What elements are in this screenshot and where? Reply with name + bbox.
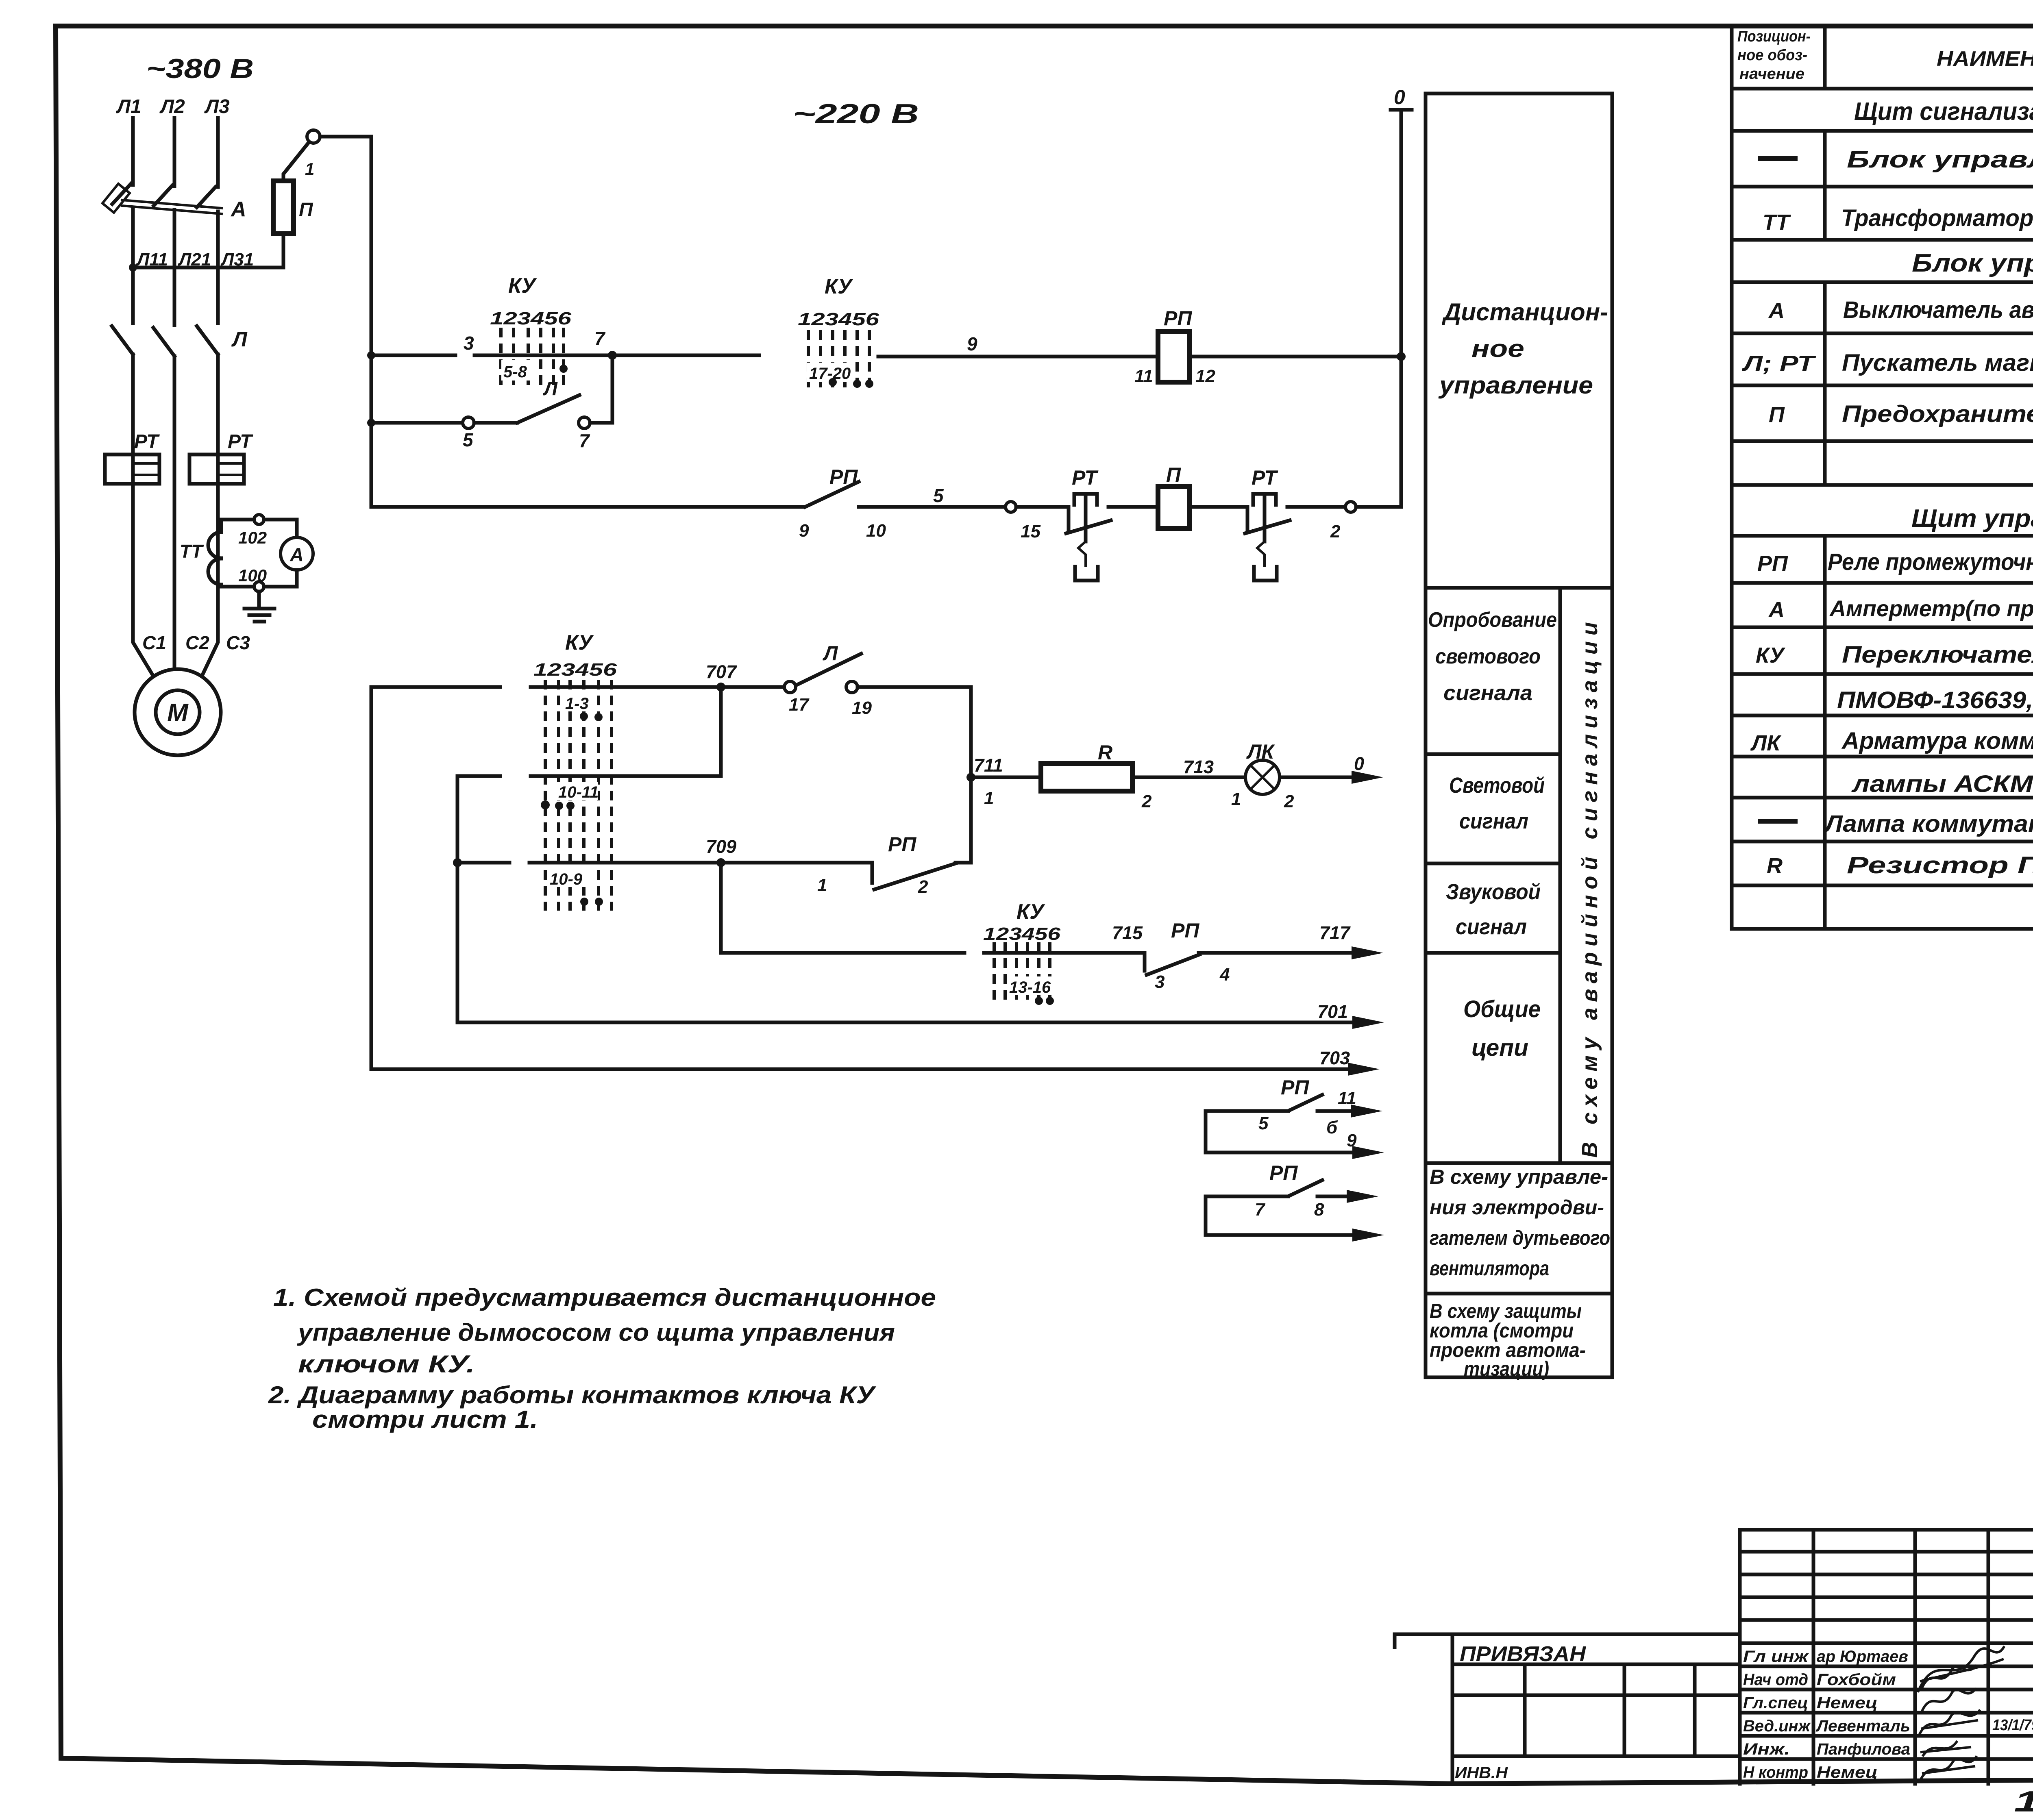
wire fuse terminal to 220V bus [320,135,371,139]
node label 707 [706,661,737,682]
wire vertical node 711 riser [966,687,975,863]
cell text oprobovanie svetovogo signala [1428,608,1557,705]
thermal relay RT heater phase L3 [189,454,244,484]
node label 711 [974,755,1003,808]
svg-text:1-3: 1-3 [565,695,589,713]
svg-text:В схему аварийной сигнализации: В схему аварийной сигнализации [1578,616,1602,1158]
svg-text:703: 703 [1319,1048,1350,1068]
svg-text:Выключатель автоматический: Выключатель автоматический [1843,297,2033,323]
svg-text:2: 2 [918,877,928,897]
svg-text:2: 2 [1330,522,1341,541]
junction on 0 bus [1397,352,1406,361]
svg-text:Реле промежуточное ПМЕ-111: Реле промежуточное ПМЕ-111 [1828,549,2033,575]
wire label 5 [933,485,944,506]
wire row 715 (y 2344) [721,951,1145,955]
signature table role texts [1743,1648,1811,1781]
title block signature grid [1740,1530,2033,1784]
svg-text:сигнал: сигнал [1456,915,1527,939]
svg-text:13/1/79: 13/1/79 [1992,1717,2033,1734]
svg-text:сигнала: сигнала [1443,681,1532,705]
svg-text:М: М [167,699,189,727]
wire label 9 [967,333,977,354]
wire row 709 (y 2122) [457,858,872,867]
svg-text:3: 3 [464,333,474,354]
svg-text:Гл инж: Гл инж [1743,1648,1809,1666]
svg-text:лампы АСКМ: лампы АСКМ [1851,771,2033,797]
svg-text:Световой: Световой [1449,773,1545,798]
table row R rezistor [1767,851,2033,879]
relay contact RP 5-6 outgoing block [1206,1076,1384,1159]
svg-text:А: А [1768,598,1785,622]
svg-text:Левенталь: Левенталь [1815,1717,1910,1735]
node label 717 [1319,922,1351,943]
wire row 701 with arrow [457,1001,1384,1029]
svg-text:4: 4 [1219,965,1230,985]
svg-text:100: 100 [238,566,267,585]
svg-text:РП: РП [1269,1161,1298,1184]
svg-text:С3: С3 [226,632,250,653]
svg-text:1: 1 [305,159,314,178]
destination legend column block [1426,94,1612,1377]
relay coil RP [1134,307,1215,386]
svg-text:Инж.: Инж. [1743,1740,1790,1758]
inv.n label [1455,1764,1508,1782]
svg-text:ное обоз-: ное обоз- [1737,47,1807,64]
node label 0 arrow [1354,753,1364,774]
svg-text:9: 9 [799,521,809,541]
svg-text:123456: 123456 [983,924,1061,944]
svg-text:Л: Л [231,328,248,351]
svg-text:123456: 123456 [533,660,617,680]
svg-text:15: 15 [1021,522,1040,541]
svg-text:715: 715 [1112,922,1143,943]
node label 3 [464,333,474,354]
parts list table grid [1732,26,2033,929]
svg-text:2: 2 [1141,791,1152,811]
svg-text:~220 В: ~220 В [793,98,919,129]
svg-text:НАИМЕНОВАНИЕ: НАИМЕНОВАНИЕ [1937,47,2033,71]
svg-text:КУ: КУ [1016,900,1045,924]
svg-text:707: 707 [706,661,737,682]
svg-text:тизации): тизации) [1464,1357,1549,1380]
node label 709 [706,836,736,857]
svg-text:17: 17 [789,695,810,715]
label RT left [134,431,160,452]
current transformer TT [208,532,221,585]
svg-text:КУ: КУ [825,275,853,298]
svg-text:начение: начение [1739,65,1804,83]
wire left bus 1 (703 feed) [370,687,373,1069]
svg-text:РТ: РТ [228,431,253,452]
contact L 17-19 [784,642,970,718]
svg-text:ПРИВЯЗАН: ПРИВЯЗАН [1460,1642,1587,1666]
table row TT transformator [1763,204,2033,235]
table row LK armatura [1750,728,2033,755]
svg-text:управление дымососом со щит: управление дымососом со щита управления [297,1319,895,1346]
svg-text:Немец: Немец [1817,1763,1878,1781]
terminal label 15 [1021,522,1040,541]
relay contact RP 9-10 labels [799,465,886,541]
svg-text:ное: ное [1471,335,1524,362]
thermal relay RT heater phase L1 [105,454,159,484]
svg-text:управление: управление [1438,372,1593,399]
svg-text:R: R [1767,854,1783,878]
svg-text:Л2: Л2 [159,96,185,117]
svg-text:0: 0 [1354,753,1364,774]
svg-text:ПМОВФ-136639, 10г / П- Д126: ПМОВФ-136639, 10г / П- Д126 [1837,687,2033,713]
fuse coil P in row [1158,463,1189,528]
table row PMOVF type [1837,687,2033,714]
svg-text:Нач отд: Нач отд [1743,1671,1808,1689]
svg-text:16591- 09: 16591- 09 [2014,1785,2033,1818]
svg-text:2. Диаграмму работы контакто: 2. Диаграмму работы контактов ключа КУ [268,1381,877,1409]
svg-text:102: 102 [238,528,267,547]
cell text distancionnoe upravlenie [1438,298,1608,399]
wire left bus 2 (701 feed) [453,776,462,1022]
wire branch to fuse from phase L1 [129,234,283,272]
svg-text:1. Схемой предусматривается: 1. Схемой предусматривается дистанционно… [273,1284,936,1311]
svg-text:Л; РТ: Л; РТ [1741,351,1816,376]
svg-text:Щит управления: Щит управления [1911,504,2033,533]
wire row 711 to lamp (y 1912) [971,771,1383,784]
fuse P [273,143,308,234]
resistor R [1041,741,1152,811]
svg-text:РТ: РТ [1252,466,1278,489]
svg-text:Н контр: Н контр [1743,1763,1808,1781]
table row RP rele [1757,548,2033,576]
label ~380 V supply [146,53,254,84]
cell text v shemu zashchity kotla [1430,1300,1586,1380]
svg-text:ИНВ.Н: ИНВ.Н [1455,1764,1508,1782]
signature date 13/1/79 [1992,1717,2033,1734]
svg-text:123456: 123456 [798,309,879,329]
handwritten 16591-09 5 [2014,1785,2033,1819]
svg-text:717: 717 [1319,922,1351,943]
svg-text:вентилятора: вентилятора [1430,1257,1549,1280]
rotated cell text v shemu avariynoy signalizatsii [1578,616,1602,1158]
label ~220 V supply [793,98,919,129]
svg-text:5: 5 [933,485,944,506]
table row lampa KM-5 dash [1761,809,2033,837]
svg-text:5: 5 [463,429,474,450]
svg-text:9: 9 [967,333,977,354]
svg-text:РТ: РТ [134,431,160,452]
notes text [268,1284,936,1433]
table row A ampermetr [1768,596,2033,622]
svg-text:ния электродви-: ния электродви- [1430,1196,1604,1219]
svg-text:КУ: КУ [508,274,537,298]
node label 7 [594,328,606,349]
key switch KU contacts 5-8 [490,274,572,388]
thermal contact RT 2 [1245,466,1290,581]
svg-text:Арматура коммутаторной: Арматура коммутаторной [1841,728,2033,754]
svg-text:1: 1 [817,875,827,895]
ammeter A [281,537,313,570]
svg-text:ЛК: ЛК [1246,740,1275,763]
svg-text:713: 713 [1183,757,1214,777]
privyazan label [1460,1642,1587,1666]
svg-text:А: А [289,544,303,565]
svg-text:Лампа коммутаторная КМ-5: Лампа коммутаторная КМ-5 [1824,811,2033,837]
svg-text:Л: Л [823,642,838,665]
svg-text:11: 11 [1338,1088,1356,1108]
label P fuse [299,199,313,221]
svg-text:123456: 123456 [490,309,572,328]
svg-text:С1: С1 [142,632,166,653]
table row P predohranitel [1769,401,2033,428]
cell text zvukovoy signal [1446,880,1541,939]
node label 715 [1112,922,1143,943]
svg-text:0: 0 [1394,86,1405,109]
svg-text:~380 В: ~380 В [146,53,254,84]
svg-text:П: П [1769,402,1785,427]
terminal 0 of control bus [1391,86,1412,357]
svg-text:711: 711 [974,755,1003,776]
svg-text:ЛК: ЛК [1750,731,1782,755]
relay contact RP 7-8 outgoing block [1206,1161,1384,1242]
svg-text:Щит сигнализации управления: Щит сигнализации управления [1854,98,2033,126]
node label L1 [116,96,141,117]
wire L aux contact row (y 1040) [371,355,612,428]
svg-text:РП: РП [1171,919,1199,942]
svg-text:Гохбойм: Гохбойм [1817,1671,1896,1689]
svg-text:Л: Л [543,378,558,400]
svg-text:Переключатель: Переключатель [1842,641,2033,668]
svg-text:сигнал: сигнал [1459,809,1528,833]
svg-text:Вед.инж: Вед.инж [1743,1717,1811,1735]
thermal contact RT 1 [1066,466,1111,581]
label L contactor [231,328,248,351]
svg-text:КУ: КУ [565,631,594,655]
lamp LK [1245,740,1294,811]
label RT right [228,431,253,452]
wire row 707 (y 1690) [371,683,784,691]
svg-text:3: 3 [1155,972,1165,992]
wire phase L2 vertical [173,118,176,669]
signature table name texts [1815,1648,1910,1781]
table row KU pereklyuchatel [1756,641,2033,668]
svg-text:Л3: Л3 [204,96,230,117]
svg-text:гателем дутьевого: гателем дутьевого [1430,1226,1610,1249]
svg-text:1: 1 [1231,789,1241,809]
svg-text:РП: РП [829,465,858,488]
svg-text:Трансформатор тока ТК-20: Трансформатор тока ТК-20 [1841,205,2033,231]
svg-text:б: б [1326,1118,1338,1137]
svg-text:Амперметр(по проекту автоматиз: Амперметр(по проекту автоматизации) [1829,596,2033,621]
svg-text:Звуковой: Звуковой [1446,880,1541,904]
contactor L poles [112,326,218,356]
svg-text:5-8: 5-8 [503,363,527,381]
wire row 10-11 (y 1909) [457,774,721,778]
svg-text:Пускатель магнитный: Пускатель магнитный [1842,350,2033,376]
svg-text:РП: РП [1757,551,1788,576]
svg-text:КУ: КУ [1756,643,1785,668]
breaker output terminal labels L11 L21 L31 [136,250,254,270]
circuit breaker A poles [102,184,222,214]
svg-text:ар Юртаев: ар Юртаев [1817,1648,1908,1666]
svg-text:Дистанцион-: Дистанцион- [1441,298,1608,326]
wire vertical 707 to 10-11 row [719,687,723,776]
svg-text:19: 19 [852,698,872,718]
svg-text:8: 8 [1314,1200,1324,1220]
wire RT protection row (y 1247) [371,357,1401,512]
svg-text:РП: РП [1281,1076,1309,1099]
relay contact RP 1-2 [817,833,971,897]
table row blok upravleniya dash [1761,146,2033,173]
svg-text:смотри лист 1.: смотри лист 1. [312,1406,538,1433]
ground of CT secondary [244,591,274,622]
terminal label 7 [579,430,590,451]
svg-text:701: 701 [1317,1001,1348,1022]
table section shchit signalizatsii upravleniya [1854,98,2033,126]
svg-text:Гл.спец: Гл.спец [1743,1694,1808,1712]
svg-text:7: 7 [1255,1200,1266,1220]
svg-text:ТТ: ТТ [180,541,204,562]
svg-text:10: 10 [866,521,886,541]
svg-text:9: 9 [1347,1131,1357,1150]
svg-text:Блок управления: Блок управления [1912,249,2033,277]
svg-text:Позицион-: Позицион- [1737,28,1811,45]
svg-text:1: 1 [984,788,994,808]
table section shchit upravleniya [1911,504,2033,533]
signature squiggles [1918,1647,2004,1779]
terminal label 5 [463,429,474,450]
svg-text:Предохранитель: Предохранитель [1842,401,2033,427]
svg-text:РТ: РТ [1072,466,1099,489]
svg-text:12: 12 [1195,366,1215,386]
wire phase L1 vertical [133,118,153,676]
svg-text:11: 11 [1134,366,1153,386]
svg-text:5: 5 [1258,1113,1269,1133]
key switch KU contacts 13-16 [983,900,1061,1005]
svg-text:Общие: Общие [1463,996,1541,1022]
node label L2 [159,96,185,117]
svg-text:13-16: 13-16 [1009,978,1051,996]
privyazan table [1395,1634,1740,1784]
svg-text:Опробование: Опробование [1428,608,1557,632]
table row A vyklyuchatel [1768,297,2033,324]
cell text obschie tsepi [1463,996,1541,1061]
svg-text:10-11: 10-11 [558,783,599,801]
key switch KU contacts 17-20 [798,275,879,391]
svg-text:П: П [299,199,313,221]
CT secondary wire 100 [221,566,297,591]
motor M [135,669,221,755]
svg-text:Немец: Немец [1817,1694,1878,1712]
svg-text:7: 7 [579,430,590,451]
svg-text:Резистор ПЭ-25: Резистор ПЭ-25 [1847,852,2033,878]
table row lampy ASKM [1851,771,2033,798]
node label 713 [1183,757,1241,809]
svg-text:В схему управле-: В схему управле- [1430,1165,1608,1188]
svg-text:светового: светового [1435,645,1541,668]
svg-text:Панфилова: Панфилова [1817,1740,1910,1758]
cell text v shemu upravleniya ventilyatora [1430,1165,1610,1280]
wire phase L3 vertical [202,118,218,675]
svg-text:2: 2 [1284,791,1294,811]
svg-text:709: 709 [706,836,736,857]
node label L3 [204,96,230,117]
svg-text:С2: С2 [185,632,209,653]
svg-text:П: П [1166,463,1181,486]
wire riser 709 to 715 row [719,863,723,953]
svg-text:R: R [1098,741,1112,764]
svg-text:А: А [230,198,246,221]
svg-text:7: 7 [594,328,606,349]
svg-text:цепи: цепи [1471,1035,1528,1061]
svg-text:ключом КУ.: ключом КУ. [298,1350,475,1378]
wire row 3 to RP coil feed (y 874) [371,351,1401,360]
relay contact RP 3-4 [1145,919,1383,992]
key switch KU contacts block middle [533,631,617,911]
label L aux contact [543,378,558,400]
table row L RT puskatel [1741,350,2033,376]
table header texts [1737,28,2033,83]
svg-text:РП: РП [1164,307,1192,330]
terminal label 2 [1330,522,1341,541]
svg-text:РП: РП [888,833,916,856]
terminal circle wire 1 [305,130,320,178]
cell text svetovoy signal [1449,773,1545,833]
motor stator terminal labels C1 C2 C3 [142,632,250,653]
wire 220V left bus [367,137,375,507]
table section blok upravleniya [1912,249,2033,277]
label A breaker [230,198,246,221]
svg-text:10-9: 10-9 [550,870,583,888]
svg-text:А: А [1768,298,1785,323]
label TT [180,541,204,562]
wire row 703 with arrow [371,1048,1380,1076]
svg-text:Л1: Л1 [116,96,141,117]
svg-text:Блок управления: Блок управления [1847,146,2033,173]
CT secondary wire 102 [221,515,297,547]
svg-text:ТТ: ТТ [1763,210,1791,235]
